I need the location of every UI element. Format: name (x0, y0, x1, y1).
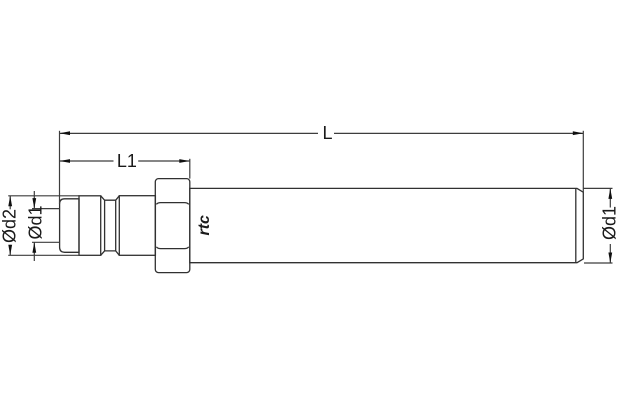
svg-text:Ød1: Ød1 (600, 206, 620, 240)
svg-text:L: L (323, 123, 333, 143)
svg-text:rtc: rtc (196, 215, 213, 236)
svg-text:L1: L1 (117, 151, 137, 171)
svg-text:Ød2: Ød2 (0, 209, 19, 243)
svg-text:Ød1: Ød1 (26, 205, 46, 239)
